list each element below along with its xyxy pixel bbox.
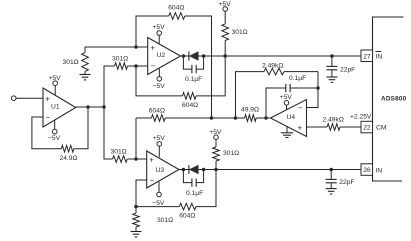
op-amp U3 <box>147 151 179 188</box>
resistor 24.9 ohm U1 feedback <box>60 145 78 161</box>
wire U1 - input feedback loop <box>32 117 62 149</box>
svg-text:604Ω: 604Ω <box>179 213 195 220</box>
svg-text:49.9Ω: 49.9Ω <box>241 106 259 113</box>
node diode anode U3 <box>202 168 206 172</box>
svg-text:301Ω: 301Ω <box>157 217 173 224</box>
svg-text:+: + <box>150 43 155 52</box>
svg-text:+: + <box>298 123 303 132</box>
svg-text:−: − <box>46 113 51 122</box>
capacitor 0.1uF across U2 diode <box>183 56 203 83</box>
node U3 + input junction <box>134 157 138 161</box>
wire U4 - input stub <box>307 72 319 108</box>
wire 2.49k to pin 22 <box>340 126 361 128</box>
resistor 301 ohm pull-up U2 output <box>222 11 248 56</box>
+5V terminal pull-up U3 <box>209 129 222 139</box>
pin 27 name IN-bar <box>376 52 383 61</box>
node +2.25V label <box>350 113 372 120</box>
capacitor 0.1uF U4 feedback <box>266 75 318 118</box>
node U3 feedback ground junction <box>134 205 138 209</box>
svg-text:+5V: +5V <box>209 129 222 136</box>
svg-text:2.49kΩ: 2.49kΩ <box>262 62 283 69</box>
svg-text:+5V: +5V <box>49 75 62 82</box>
+5V supply terminal U4 <box>280 94 293 110</box>
svg-text:301Ω: 301Ω <box>223 150 239 157</box>
resistor 2.49k ohm U4 feedback <box>262 62 284 75</box>
resistor 301 ohm U2 + to ground <box>63 47 89 75</box>
node U4 output junction <box>264 116 268 120</box>
op-amp U1 <box>43 88 76 127</box>
svg-text:−5V: −5V <box>48 135 61 142</box>
pin 26 name IN <box>376 167 383 174</box>
node U1 output feedback junction <box>86 105 90 109</box>
node U1 output to drivers junction <box>102 105 106 109</box>
ground below 301 ohm U3 <box>131 232 142 237</box>
wire U1 out up to U2 - input resistor <box>104 66 115 107</box>
svg-text:301Ω: 301Ω <box>112 55 128 62</box>
resistor 604 ohm U2 feedback <box>182 93 198 109</box>
svg-text:−: − <box>150 176 155 185</box>
svg-text:301Ω: 301Ω <box>111 148 127 155</box>
node U2 output diode cathode <box>182 54 186 58</box>
resistor 301 ohm pull-up U3 output <box>213 140 239 170</box>
wire U2 - input down to 604 feedback <box>136 66 183 96</box>
node U2 - input junction <box>134 64 138 68</box>
wire U2 output rail to pin 27 <box>181 55 362 57</box>
svg-text:24.9Ω: 24.9Ω <box>60 155 78 162</box>
resistor 301 ohm U3 - to ground <box>133 207 173 232</box>
op-amp U2 <box>148 38 181 75</box>
svg-text:U1: U1 <box>51 104 60 111</box>
svg-text:+: + <box>45 94 50 103</box>
resistor 2.49k ohm to CM pin <box>323 116 344 130</box>
wire U2 + input up to top 604 feedback <box>136 16 169 47</box>
svg-text:IN: IN <box>376 54 383 61</box>
-5V supply terminal U1 <box>48 120 61 142</box>
wire U2 + input line <box>85 46 148 48</box>
wire 604 ohm top to CM rail column <box>185 16 212 118</box>
+5V supply terminal U2 <box>153 24 166 44</box>
svg-text:U4: U4 <box>287 114 296 121</box>
svg-text:+5V: +5V <box>219 1 232 8</box>
wire U3 output rail to pin 26 <box>179 169 361 171</box>
ground below 301 ohm U2 <box>80 75 91 80</box>
node U2 + input junction <box>134 45 138 49</box>
svg-text:604Ω: 604Ω <box>168 5 184 12</box>
svg-text:0.1µF: 0.1µF <box>185 76 202 83</box>
capacitor 0.1uF across U3 diode <box>183 170 203 198</box>
resistor 301 ohm into U2 - input <box>112 55 128 69</box>
wire U4 + input to 2.49k <box>307 126 328 128</box>
wire 24.9 ohm to U1 output <box>74 107 88 149</box>
diode clamp U3 output <box>189 165 198 174</box>
wire 604 feedback to U3 output column <box>196 170 216 207</box>
svg-text:U2: U2 <box>157 52 166 59</box>
svg-text:IN: IN <box>376 167 383 174</box>
+5V terminal pull-up U2 <box>219 1 232 11</box>
wire 301 ohm to U3 + input <box>127 158 146 160</box>
svg-text:0.1µF: 0.1µF <box>186 190 203 197</box>
-5V supply terminal U2 <box>153 68 166 90</box>
-5V supply terminal U3 <box>152 182 165 207</box>
svg-text:2.49kΩ: 2.49kΩ <box>323 116 344 123</box>
svg-text:+2.25V: +2.25V <box>350 113 372 120</box>
pin 22 box <box>361 121 373 133</box>
wire 604 feedback to U2 output column <box>196 56 225 96</box>
svg-text:ADS800: ADS800 <box>381 95 407 102</box>
IC ADS800 outline <box>373 17 407 181</box>
ground U4 supply <box>281 126 293 138</box>
svg-text:26: 26 <box>363 167 371 174</box>
svg-text:27: 27 <box>363 53 371 60</box>
svg-text:−: − <box>151 62 156 71</box>
pin 26 box <box>361 164 373 176</box>
ground below 22pF pin 26 <box>326 189 337 194</box>
svg-text:+: + <box>149 155 154 164</box>
diode clamp U2 output <box>189 52 198 61</box>
svg-text:+5V: +5V <box>153 24 166 31</box>
wire CM rail down to U3 + input <box>135 118 137 159</box>
svg-text:604Ω: 604Ω <box>182 102 198 109</box>
node U2 rail pull-up junction <box>223 54 227 58</box>
capacitor 22pF at pin 26 <box>326 168 355 189</box>
wire input to U1 + <box>16 97 43 99</box>
resistor 604 ohm CM rail to U3 <box>149 107 166 121</box>
svg-text:604Ω: 604Ω <box>149 107 165 114</box>
+5V supply terminal U3 <box>153 135 166 157</box>
node U3 rail pull-up junction <box>214 168 218 172</box>
pin 22 name CM <box>376 125 387 132</box>
node diode anode U2 <box>202 54 206 58</box>
wire 301 ohm to U2 - input <box>128 65 148 67</box>
svg-text:+5V: +5V <box>153 135 166 142</box>
svg-text:0.1µF: 0.1µF <box>289 75 306 82</box>
node U4 feedback junction <box>316 86 320 90</box>
wire 2.49k feedback left column <box>236 72 265 118</box>
resistor 49.9 ohm U4 output <box>241 106 259 121</box>
svg-text:−: − <box>298 104 303 113</box>
wire U1 output rail <box>76 106 104 108</box>
wire 49.9 ohm to U4 output <box>256 117 270 119</box>
+5V supply terminal U1 <box>49 75 62 95</box>
node CM rail top-604 junction <box>210 116 214 120</box>
wire 2.49k feedback to U4 - column <box>284 71 318 73</box>
svg-text:+5V: +5V <box>280 94 293 101</box>
svg-text:U3: U3 <box>156 167 165 174</box>
svg-text:301Ω: 301Ω <box>63 59 79 66</box>
svg-text:22pF: 22pF <box>340 66 355 73</box>
resistor 604 ohm U2 + to CM rail <box>168 5 185 20</box>
resistor 604 ohm U3 feedback <box>179 203 196 219</box>
wire U1 out down to U3 + input resistor <box>104 107 113 159</box>
wire CM rail middle <box>165 117 244 119</box>
svg-text:−5V: −5V <box>152 200 165 207</box>
svg-text:22pF: 22pF <box>339 179 354 186</box>
node U3 output diode cathode <box>182 168 186 172</box>
resistor 301 ohm into U3 + input <box>111 148 128 162</box>
capacitor 22pF at pin 27 <box>326 54 355 77</box>
svg-text:CM: CM <box>376 125 387 132</box>
input terminal <box>11 96 16 101</box>
op-amp U4 <box>271 100 307 137</box>
wire U3 - input down to 604 feedback <box>136 180 179 207</box>
svg-text:−5V: −5V <box>153 83 166 90</box>
svg-text:301Ω: 301Ω <box>232 29 248 36</box>
svg-text:22: 22 <box>363 125 371 132</box>
wire CM rail <box>136 117 151 119</box>
node CM rail 2.49k junction <box>234 116 238 120</box>
ground below 22pF pin 27 <box>326 77 337 82</box>
pin 27 box <box>361 50 373 62</box>
